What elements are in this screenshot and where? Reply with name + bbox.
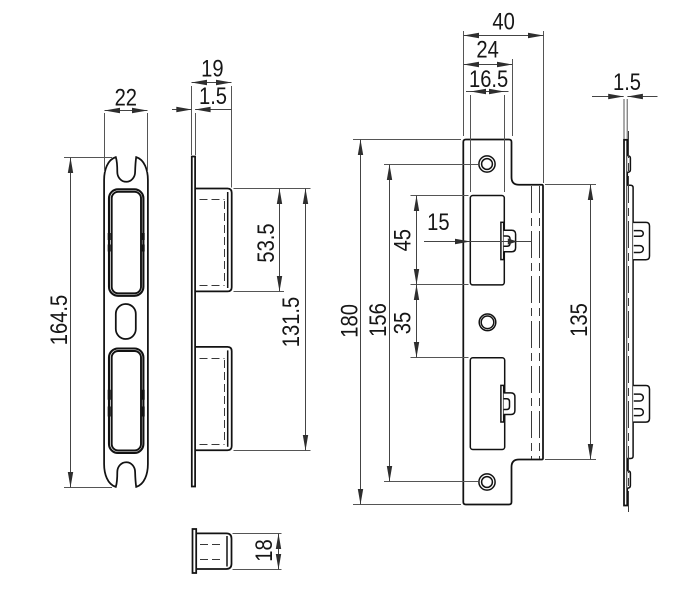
svg-text:53.5: 53.5 <box>252 223 279 262</box>
dimension 156 line <box>389 165 391 482</box>
deadbolt hole front view inner lip <box>112 351 141 451</box>
latch tab finger 1 <box>634 231 644 237</box>
dimension 180 arrows <box>358 140 363 156</box>
deadbolt cutout <box>470 358 504 450</box>
dimension 18 arrows <box>276 534 281 550</box>
latch clip bar <box>501 222 504 259</box>
center oval hole <box>116 304 136 339</box>
dimension 164.5 line <box>70 158 72 488</box>
svg-text:24: 24 <box>476 36 498 63</box>
dimension 135 line <box>590 185 592 460</box>
dimension 19 line <box>192 82 232 84</box>
dust box 1 inner wall line <box>227 192 229 288</box>
dimension 156 extension lines <box>384 165 478 482</box>
dimension 40 extension lines <box>464 31 544 183</box>
svg-text:15: 15 <box>427 208 449 235</box>
svg-text:18: 18 <box>250 539 277 561</box>
case centerline B <box>539 186 541 459</box>
lock case front view outline <box>463 140 543 505</box>
svg-text:135: 135 <box>565 303 592 337</box>
dimension 180 extension lines <box>353 140 461 505</box>
latch bolt side tab <box>633 222 649 259</box>
svg-text:35: 35 <box>389 312 416 334</box>
case centerline A <box>531 186 533 459</box>
dimension 16.5 extension lines <box>471 95 505 192</box>
lock case side edge <box>627 185 633 458</box>
dust box section hidden lines <box>200 545 224 560</box>
deadbolt clip inner bump <box>504 399 510 410</box>
dimension 24 extension line <box>512 59 514 136</box>
latch hole front view outer lip <box>109 189 143 295</box>
screw hole bottom <box>479 474 495 490</box>
faceplate side view centerline <box>628 131 630 512</box>
dust box 1 hidden hole lines <box>200 200 225 286</box>
dimension 22 arrows <box>105 108 121 113</box>
dimension 180 line <box>360 140 362 505</box>
hub hole center <box>479 314 496 331</box>
strike plate front view outline <box>104 157 148 487</box>
deadbolt clip bar <box>501 385 504 422</box>
svg-text:22: 22 <box>115 84 137 111</box>
svg-text:1.5: 1.5 <box>613 68 641 95</box>
latch cutout <box>470 196 504 285</box>
dust box section bottom view plate <box>193 529 197 573</box>
dimension 40 arrows <box>464 33 480 38</box>
dimension 15 line <box>424 241 532 243</box>
latch hole front view inner lip <box>112 192 141 293</box>
dimension 1.5 strike arrows <box>176 107 192 112</box>
svg-text:156: 156 <box>364 303 391 337</box>
dimension 1.5 faceplate line <box>592 96 658 98</box>
screw boss bottom <box>627 471 630 489</box>
deadbolt tab finger 2 <box>634 409 644 416</box>
dimension 1.5 strike thickness line <box>172 109 232 111</box>
dust box 2 inner wall line <box>227 350 229 446</box>
dimension 164.5 extension lines <box>64 158 112 488</box>
dimension 24 arrows <box>464 62 480 67</box>
dimension 53.5 arrows <box>277 189 282 205</box>
dimension 164.5 arrows <box>68 158 73 174</box>
svg-text:180: 180 <box>336 304 363 338</box>
dimension 19 arrows <box>192 80 208 85</box>
dust box 2 side view <box>195 347 232 450</box>
screw hole top <box>479 156 495 172</box>
latch hole lip break marks <box>109 233 143 252</box>
dimension 19 extension lines <box>192 86 232 188</box>
dimension 156 arrows <box>387 165 392 181</box>
dust box 2 hidden hole lines <box>200 359 225 445</box>
dimension 35 extension line <box>411 357 469 359</box>
dimension 18 line <box>278 534 280 570</box>
dimension 131.5 line <box>305 189 307 451</box>
dust box section inner wall <box>226 536 228 567</box>
svg-text:164.5: 164.5 <box>46 295 73 345</box>
dimension 53.5 extension lines <box>234 189 311 292</box>
dimension 15 arrows <box>455 239 471 244</box>
dimension 16.5 arrows <box>471 89 487 94</box>
screw boss top <box>627 155 630 172</box>
deadbolt tab finger 1 <box>634 394 644 401</box>
strike plate side view plate <box>192 157 195 487</box>
dimension 135 extension lines <box>545 185 596 460</box>
faceplate side view plate <box>624 140 627 506</box>
latch clip inner bump <box>504 236 510 246</box>
dimension 24 line <box>464 64 513 66</box>
dimension 22 line <box>105 110 148 112</box>
svg-text:40: 40 <box>492 8 514 35</box>
dimension 22 extension lines <box>105 113 148 172</box>
deadbolt hole front view outer lip <box>109 349 143 454</box>
dimension 131.5 arrows <box>303 189 308 205</box>
svg-text:131.5: 131.5 <box>277 297 304 347</box>
dust box 1 side view <box>195 189 232 292</box>
dimension 53.5 line <box>279 189 281 292</box>
dust box section outline <box>196 533 231 569</box>
dimension 16.5 line <box>466 91 509 93</box>
svg-text:16.5: 16.5 <box>469 65 508 92</box>
dimension 40 line <box>464 35 544 37</box>
deadbolt hole lip break marks <box>109 390 143 417</box>
latch tab finger 2 <box>634 246 644 253</box>
dimension 135 arrows <box>588 185 593 201</box>
dimension 1.5 faceplate arrows <box>608 94 624 99</box>
svg-text:45: 45 <box>389 229 416 251</box>
svg-text:19: 19 <box>201 55 223 82</box>
dimension 35 arrows <box>414 285 419 301</box>
dimension 35 line <box>416 285 418 358</box>
dimension 45 line <box>416 196 418 285</box>
dimension 18 extension lines <box>233 534 282 570</box>
dimension 45 extension lines <box>411 196 469 285</box>
dimension 45 arrows <box>414 196 419 212</box>
dimension 131.5 extension line <box>234 450 311 452</box>
deadbolt clip outer bump <box>504 393 515 415</box>
svg-text:1.5: 1.5 <box>199 82 227 109</box>
dimension 1.5 faceplate extension lines <box>624 99 627 139</box>
latch clip outer bump <box>504 230 516 252</box>
deadbolt side tab <box>633 386 649 423</box>
